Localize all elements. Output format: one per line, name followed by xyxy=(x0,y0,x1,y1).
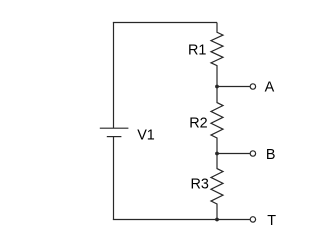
svg-text:R1: R1 xyxy=(188,42,206,58)
svg-text:R3: R3 xyxy=(191,176,209,192)
svg-text:T: T xyxy=(267,213,276,229)
svg-text:V1: V1 xyxy=(137,127,155,143)
svg-text:R2: R2 xyxy=(189,115,207,131)
svg-text:A: A xyxy=(265,79,275,95)
svg-text:B: B xyxy=(266,147,276,163)
